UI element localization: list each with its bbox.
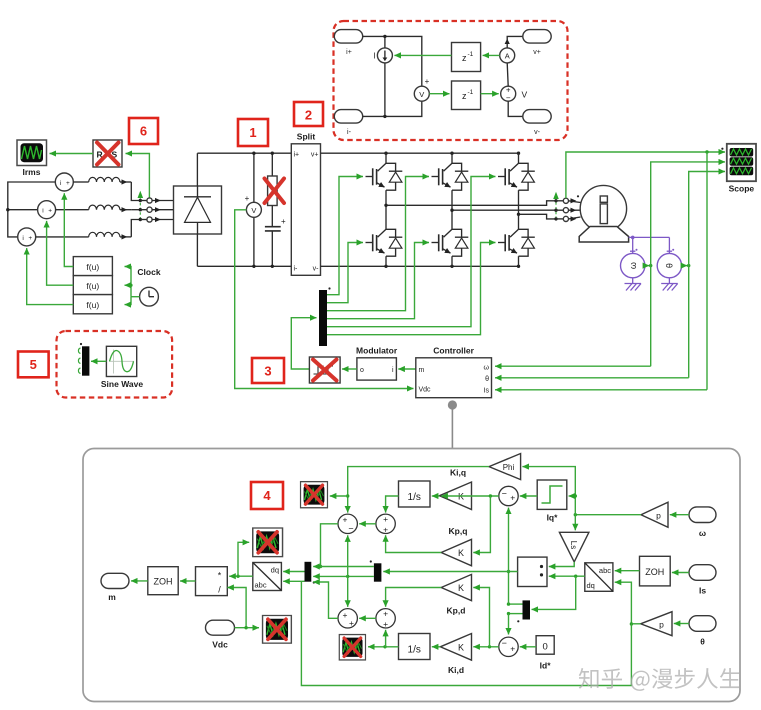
svg-text:2: 2 — [305, 108, 312, 123]
wire pwm to demux — [291, 318, 316, 369]
wire S3 out to Ki,q and down to Kp,q — [441, 495, 499, 497]
wire S1 out to mux M1 — [321, 524, 339, 567]
top DC bus right — [321, 152, 519, 154]
svg-text:−: − — [502, 489, 507, 499]
gate demux bar — [319, 290, 327, 346]
svg-text:+: + — [66, 180, 70, 187]
sine demux bar — [78, 343, 89, 376]
wire Ki,d to 1/s — [432, 646, 441, 648]
wire theta to scope — [689, 172, 725, 378]
svg-text:+: + — [343, 515, 348, 525]
wire Vdc sensor to controller Vdc — [235, 210, 414, 389]
wire z1 bottom to V2 — [481, 93, 499, 95]
inductor La — [73, 177, 131, 184]
PWM generator (crossed) — [309, 357, 340, 383]
svg-text:v+: v+ — [533, 49, 541, 56]
svg-text:+: + — [383, 514, 388, 524]
badge 3 — [252, 358, 284, 383]
phase wire A — [386, 201, 556, 206]
gain Ki,q — [440, 468, 472, 510]
wire V2 to v- — [508, 101, 522, 116]
wire theta to controller input — [495, 377, 689, 379]
wire Vdc branch to divide — [227, 588, 246, 628]
gain Kp,d — [441, 574, 471, 615]
svg-text:Clock: Clock — [137, 267, 160, 277]
IGBT/diode Q2 — [366, 205, 403, 266]
svg-text:ω: ω — [699, 528, 706, 538]
motor machine — [579, 185, 628, 242]
inductor Lb — [56, 205, 132, 212]
wire stator current to scope — [566, 152, 725, 198]
badge 1 — [238, 119, 268, 146]
svg-text:1: 1 — [249, 125, 256, 140]
wire bus to source 2 — [8, 209, 38, 211]
svg-text:Id*: Id* — [540, 661, 552, 671]
svg-text:i-: i- — [347, 129, 352, 136]
wire i+ to node — [363, 35, 385, 37]
mux M1 — [305, 562, 312, 582]
svg-text:θ: θ — [485, 376, 489, 383]
crossed scope D2 (mid) — [253, 528, 283, 557]
wire phase A jog — [131, 182, 140, 201]
svg-text:ZOH: ZOH — [154, 577, 173, 587]
svg-text:abc: abc — [599, 566, 611, 575]
svg-text:ZOH: ZOH — [645, 567, 664, 577]
wire theta sensor out — [682, 265, 688, 267]
wires M3 to feedback vertical — [509, 603, 523, 605]
dashed annotation box 5 (sine wave detail) — [57, 331, 173, 398]
voltage sensor V1 — [414, 77, 429, 101]
wire p bottom out and theta feed to M1 — [631, 623, 640, 625]
Controller block — [416, 346, 492, 398]
gain Kp,q — [441, 526, 471, 566]
svg-text:Ki,q: Ki,q — [450, 468, 466, 478]
sum S2 — [376, 514, 395, 535]
svg-text:*: * — [218, 571, 222, 581]
wire Vdc to scope D3 — [235, 627, 260, 629]
IGBT/diode Q5 — [498, 153, 535, 214]
svg-text:z: z — [462, 91, 467, 101]
svg-text:6: 6 — [140, 124, 147, 139]
wire product out to M2 — [383, 571, 517, 573]
constant 0 block — [536, 636, 554, 671]
left source bus wire — [8, 182, 56, 237]
svg-text:K: K — [458, 548, 464, 558]
port oval i+ — [334, 30, 362, 56]
f(u) C to source C — [27, 248, 74, 305]
output port m — [101, 573, 129, 602]
wire 1/s out to scope D4 and S6 bottom — [368, 646, 399, 648]
svg-text:Vdc: Vdc — [419, 387, 432, 394]
svg-text:i+: i+ — [346, 49, 352, 56]
wire ZOH to abc2dq — [615, 570, 640, 572]
svg-text:4: 4 — [263, 488, 271, 503]
unit delay z1 bottom — [452, 81, 481, 110]
IGBT/diode Q1 — [366, 153, 403, 205]
wire V1 to z1 bottom — [429, 93, 449, 95]
measurement tap motor side — [553, 192, 559, 221]
wire S4 out to Ki,d and Kp,d — [473, 646, 499, 648]
svg-text:ω: ω — [628, 262, 638, 269]
sum circle V2 — [501, 86, 528, 103]
svg-text:Phi: Phi — [503, 463, 515, 472]
svg-text:i-: i- — [294, 266, 299, 273]
wire rectifier to bottom bus — [196, 234, 198, 266]
svg-text:v+: v+ — [311, 152, 319, 159]
wires M1 out to dq2abc — [283, 571, 304, 573]
svg-text:dq: dq — [587, 581, 595, 590]
svg-text:−: − — [502, 638, 507, 648]
current source I1 — [373, 48, 392, 63]
svg-text:f(u): f(u) — [86, 300, 99, 310]
svg-text:Ls: Ls — [569, 541, 578, 549]
svg-text:+: + — [281, 217, 286, 226]
sum S6 — [376, 608, 395, 629]
sum S3 speed error — [499, 486, 518, 505]
svg-text:p: p — [659, 619, 664, 629]
svg-text:1/s: 1/s — [408, 492, 421, 503]
ZOH left — [148, 567, 178, 595]
svg-text:+: + — [349, 618, 354, 628]
speed sensor w — [621, 236, 670, 278]
gate wire g3 — [327, 177, 429, 311]
Modulator block — [356, 346, 398, 381]
wire w sensor out — [645, 265, 649, 267]
svg-text:m: m — [419, 367, 425, 374]
wire w to controller input — [495, 365, 651, 367]
ZOH right — [640, 556, 671, 586]
Clock — [137, 267, 160, 306]
measurement tap left — [138, 191, 144, 221]
svg-text:+: + — [510, 644, 515, 654]
current source I B — [38, 201, 56, 219]
bottom DC bus right — [321, 265, 519, 267]
wire phase C jog — [131, 220, 140, 237]
wire V bottom to bottom node — [385, 101, 422, 116]
svg-text:θ: θ — [665, 263, 675, 268]
bottom DC bus left — [197, 265, 291, 267]
f(u) B to source B — [47, 221, 74, 285]
svg-text:i+: i+ — [294, 152, 300, 159]
wire Kp,q to S2 bottom — [386, 535, 442, 552]
dq2abc transform — [253, 563, 282, 591]
wire dq2abc to divide + branch to scope D2 — [229, 575, 253, 577]
gain p bottom — [641, 612, 672, 636]
f(u) block C — [73, 295, 112, 314]
wire A to z1 top — [483, 54, 500, 56]
svg-text:z: z — [462, 53, 467, 63]
wire RMS to Irms — [50, 153, 94, 155]
svg-text:1/s: 1/s — [408, 645, 421, 656]
wire Is to ZOH — [672, 572, 689, 574]
svg-text:Iq*: Iq* — [547, 513, 559, 523]
gate wire g4 — [327, 243, 429, 319]
connector hooks left — [140, 198, 173, 222]
crossed scope D4 (bottom mid) — [339, 635, 365, 660]
svg-text:+: + — [383, 619, 388, 629]
wire S2 to S1 — [359, 523, 376, 525]
svg-text:+: + — [510, 493, 515, 503]
wire A up to v+ — [507, 36, 522, 48]
sum S5 — [338, 609, 357, 628]
svg-text:v-: v- — [534, 129, 541, 136]
svg-text:K: K — [458, 583, 464, 593]
crossed scope D1 (top) — [300, 482, 327, 508]
wire Phi out to sum S1 top / scope D1 — [348, 467, 489, 513]
port oval i- — [334, 110, 362, 136]
gain Ki,d — [440, 634, 471, 676]
svg-text:+: + — [28, 235, 32, 242]
wire phase B — [131, 209, 140, 211]
f(u) A to source A — [64, 193, 73, 266]
product ** block — [518, 557, 547, 586]
braking resistor (crossed) — [265, 152, 285, 227]
wire Is to controller input — [495, 389, 707, 391]
wire I1 to bottom node — [384, 63, 386, 117]
callout line to detail — [448, 400, 457, 409]
wire 1/s out to sum S2 — [386, 496, 399, 513]
wire sine to bar — [91, 360, 106, 362]
gain Ls (down) — [559, 532, 589, 562]
ground theta — [661, 278, 678, 291]
wire sat to S3 — [520, 495, 537, 497]
wire rectifier to top bus — [196, 153, 198, 186]
badge 2 — [294, 102, 323, 126]
svg-text:dq: dq — [271, 566, 279, 575]
svg-text:Modulator: Modulator — [356, 346, 398, 356]
watermark — [579, 668, 740, 691]
svg-text:Kp,q: Kp,q — [449, 526, 468, 536]
wire Is down to controller — [706, 152, 708, 390]
input port Vdc — [206, 620, 235, 649]
f(u) block A — [73, 257, 112, 276]
voltage sensor Vdc branch — [245, 152, 262, 268]
svg-text:v-: v- — [313, 266, 320, 273]
integrator 1/s q — [399, 481, 431, 507]
svg-text:Irms: Irms — [23, 167, 41, 177]
IGBT/diode Q4 — [432, 210, 469, 266]
rectifier bridge — [174, 186, 222, 234]
svg-text:V: V — [251, 206, 256, 215]
gate wire g6 — [327, 243, 496, 335]
current source I A — [55, 173, 73, 191]
wire ZOH to m — [131, 580, 148, 582]
svg-text:m: m — [108, 592, 116, 602]
wire Ki,q to 1/s — [432, 495, 440, 497]
svg-text:V: V — [419, 90, 424, 99]
svg-text:−: − — [506, 94, 511, 103]
svg-text:K: K — [458, 643, 464, 653]
net Vd: M2 to M1 with taps — [313, 575, 374, 577]
wire z1 top to I1 — [394, 54, 451, 56]
feedback vertical Iq/Id — [508, 572, 510, 605]
inductor Lc — [36, 232, 132, 239]
Scope block — [721, 144, 756, 194]
svg-text:-1: -1 — [468, 89, 474, 96]
Irms scope display — [17, 140, 47, 177]
IGBT/diode Q3 — [432, 153, 469, 210]
wire Kp,d to S6 top — [386, 588, 442, 607]
wire divide to ZOH — [180, 580, 196, 582]
svg-text:o: o — [360, 367, 364, 374]
badge 5 — [18, 352, 49, 378]
sum S1 — [338, 514, 357, 533]
svg-text:i: i — [22, 235, 23, 242]
top DC bus left — [197, 152, 291, 154]
svg-text:Scope: Scope — [729, 184, 755, 194]
svg-text:5: 5 — [30, 357, 37, 372]
wire controller to modulator — [398, 368, 416, 370]
IGBT/diode Q6 — [498, 214, 535, 266]
ground w — [625, 278, 642, 291]
gain p top — [641, 502, 668, 527]
gate wire g1 — [327, 177, 363, 295]
clock wires to f(u) — [125, 267, 140, 305]
svg-text:p: p — [656, 510, 661, 520]
mux M2 — [374, 563, 382, 581]
svg-text:Is: Is — [484, 388, 490, 395]
net Vq: M2 to M1 — [313, 566, 374, 568]
integrator 1/s d — [399, 634, 431, 660]
current source I C — [18, 228, 36, 246]
svg-text:Vdc: Vdc — [212, 640, 228, 650]
svg-text:Sine Wave: Sine Wave — [101, 379, 143, 389]
f(u) block B — [73, 276, 112, 295]
svg-text:+: + — [383, 608, 388, 618]
capacitor C1 — [265, 217, 286, 268]
svg-text:f(u): f(u) — [86, 281, 99, 291]
Sine Wave block — [101, 346, 143, 389]
svg-text:i: i — [60, 180, 61, 187]
wire node to V branch — [385, 36, 422, 86]
input port Is — [689, 565, 716, 596]
port oval v+ — [523, 30, 551, 56]
wire theta to abc2dq — [615, 582, 632, 624]
svg-text:Is: Is — [699, 586, 706, 596]
saturation Iq* — [537, 480, 567, 523]
wire theta to p bottom — [674, 623, 689, 625]
wire S5 out to M1 — [313, 582, 338, 618]
wire 0 to S4 — [520, 646, 536, 648]
svg-text:-1: -1 — [468, 51, 474, 58]
svg-text:+: + — [245, 194, 250, 203]
wire Ls to product — [549, 562, 574, 567]
input port w — [689, 507, 716, 538]
position sensor theta — [657, 249, 681, 278]
svg-text:0: 0 — [542, 641, 547, 652]
controller detail container — [83, 449, 740, 702]
gain Phi — [489, 454, 521, 480]
wire A to V2 — [507, 63, 508, 86]
RMS block (crossed) — [93, 140, 122, 167]
sum S4 — [499, 637, 518, 656]
svg-text:+: + — [48, 208, 52, 215]
svg-text:Kp,d: Kp,d — [447, 606, 466, 616]
phase wire C — [519, 214, 557, 219]
svg-text:i: i — [42, 208, 43, 215]
svg-text:Controller: Controller — [433, 346, 474, 356]
abc2dq transform — [585, 563, 613, 592]
dashed annotation box 2 (Split subsystem detail) — [334, 21, 568, 140]
svg-text:V: V — [522, 90, 528, 100]
input port theta — [689, 616, 716, 647]
wire tap to RMS — [126, 154, 150, 199]
badge 6 — [129, 118, 158, 144]
svg-text:+: + — [343, 610, 348, 620]
mux M3 — [523, 600, 531, 619]
phase wire B — [452, 209, 556, 211]
gain/meas circle A — [500, 48, 515, 63]
divide block — [196, 567, 228, 596]
wire w to p — [670, 514, 689, 516]
svg-text:θ: θ — [700, 637, 705, 647]
wire abc2dq out to product + branch to M3 — [549, 575, 585, 577]
badge 4 — [251, 482, 283, 509]
svg-text:Ki,d: Ki,d — [448, 665, 464, 675]
wire bottom node to i- — [363, 115, 385, 117]
gate wire g2 — [327, 243, 363, 303]
svg-text:+: + — [383, 524, 388, 534]
crossed scope D3 (bottom left) — [263, 615, 292, 643]
gate wire g5 — [327, 177, 496, 327]
Split block — [291, 132, 320, 276]
node dots — [383, 35, 386, 38]
svg-text:+: + — [425, 77, 430, 86]
wire S6 to S5 — [359, 617, 376, 619]
svg-text:Split: Split — [297, 132, 316, 142]
svg-text:ω: ω — [484, 365, 490, 372]
connector hooks motor side — [556, 195, 581, 221]
wire node to I1 — [384, 36, 386, 48]
svg-text:3: 3 — [264, 364, 271, 379]
svg-text:−: − — [348, 524, 353, 534]
wire p out to junction / Phi / Ls — [575, 514, 641, 516]
unit delay z1 top — [452, 43, 481, 72]
wire w to scope — [651, 162, 725, 366]
svg-text:I: I — [373, 52, 375, 61]
wire modulator to pwm — [342, 368, 357, 370]
svg-text:A: A — [505, 52, 510, 61]
svg-text:f(u): f(u) — [86, 262, 99, 272]
svg-text:abc: abc — [255, 581, 267, 590]
port oval v- — [523, 110, 551, 136]
